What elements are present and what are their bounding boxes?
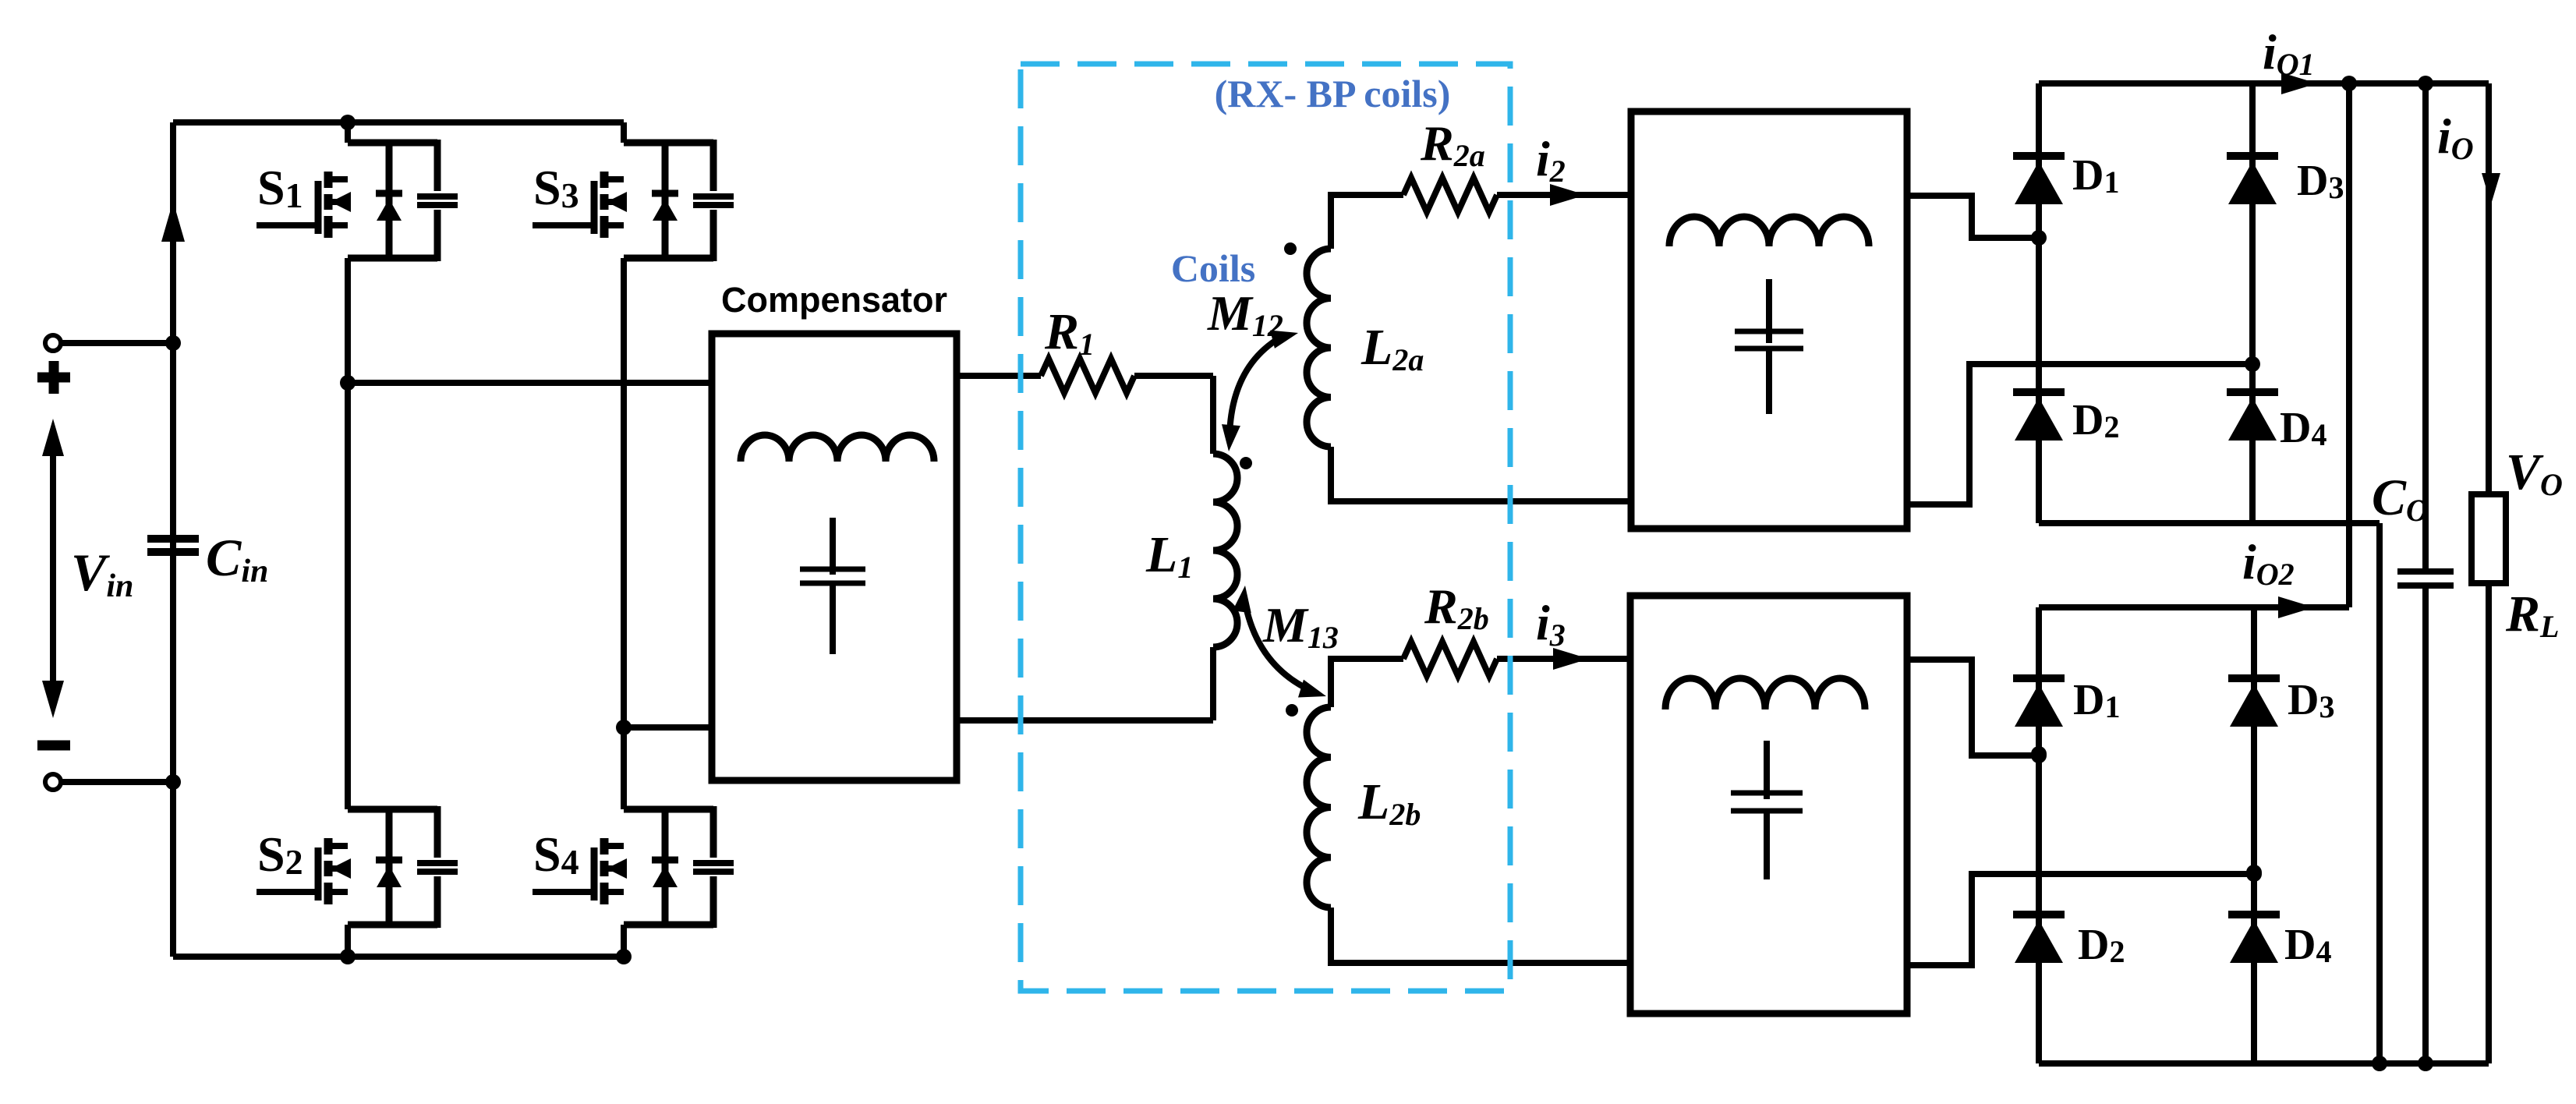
svg-text:Compensator: Compensator — [721, 280, 947, 320]
svg-text:Coils: Coils — [1171, 246, 1255, 290]
svg-text:(RX- BP coils): (RX- BP coils) — [1215, 72, 1451, 115]
